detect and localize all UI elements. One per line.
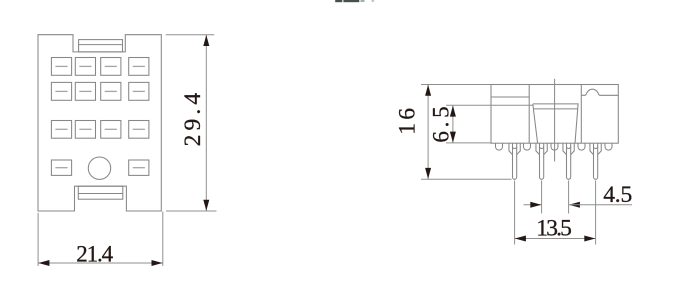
- dim 29.4 dimension line: [205, 35, 207, 211]
- standoff bump 2: [524, 143, 531, 150]
- contact slot r4c4: [129, 160, 149, 175]
- top mounting tab: [79, 40, 123, 52]
- standoff bump 5: [605, 143, 612, 150]
- dim 6.5 arrow up: [450, 106, 456, 117]
- dim 16 arrow down: [425, 168, 431, 179]
- contact slot r1c3: [101, 58, 121, 76]
- dim 4.5 extension line right: [568, 181, 570, 214]
- pin 2: [536, 143, 547, 179]
- standoff bump 1: [496, 143, 503, 150]
- right section divider: [580, 85, 582, 144]
- svg-text:16: 16: [394, 108, 420, 135]
- socket body outline (top view): [38, 35, 161, 211]
- dim 16 extension line bottom: [421, 178, 512, 180]
- dim 21.4 arrow left: [38, 260, 49, 266]
- dim 21.4 extension line left: [37, 213, 39, 266]
- dim 21.4 extension line right: [162, 212, 164, 267]
- dim 6.5 extension line bottom: [446, 142, 491, 144]
- dim 6.5 extension line top: [446, 104, 533, 106]
- contact slot r4c1: [51, 160, 71, 175]
- dim 13.5 extension line right: [595, 181, 597, 245]
- left section divider: [528, 85, 530, 144]
- left section horizontal line: [491, 96, 529, 98]
- dim 29.4 extension line top: [166, 34, 215, 36]
- centerline: [554, 79, 556, 162]
- dim 29.4 arrow down: [203, 200, 209, 211]
- trapezoid inner line: [533, 108, 577, 110]
- dim 6.5 arrow down: [450, 132, 456, 143]
- contact slot r2c1: [51, 82, 71, 100]
- pin 4: [590, 143, 601, 179]
- dim 13.5 dimension line: [515, 238, 596, 240]
- dim 13.5 arrow right: [584, 236, 595, 242]
- dim 29.4 extension line bottom: [166, 210, 217, 212]
- contact slot r2c2: [75, 82, 95, 100]
- contact slot r1c4: [129, 58, 149, 76]
- dim 16 dimension line: [427, 85, 429, 180]
- right section notch with bump: [581, 89, 618, 95]
- svg-text:13.5: 13.5: [536, 215, 572, 241]
- cropped header mark: [335, 0, 374, 2]
- dim 13.5 arrow left: [515, 236, 526, 242]
- contact slot r3c2: [75, 121, 95, 139]
- contact slot r3c3: [101, 121, 121, 139]
- center hole: [88, 157, 110, 179]
- contact slot r1c2: [75, 58, 95, 76]
- svg-text:21.4: 21.4: [76, 241, 113, 266]
- contact slot r2c4: [129, 82, 149, 100]
- dim 29.4 arrow up: [203, 35, 209, 46]
- pin 3: [563, 143, 574, 179]
- dim 6.5 dimension line: [452, 105, 454, 143]
- contact slot r2c3: [101, 82, 121, 100]
- dim 4.5 extension line left: [541, 181, 543, 214]
- dim 16 extension line top: [421, 84, 491, 86]
- pin 1: [509, 143, 520, 179]
- relay cavity trapezoid: [533, 104, 578, 143]
- svg-text:29.4: 29.4: [180, 93, 206, 147]
- dim 4.5 arrow pointing left: [569, 202, 580, 208]
- dim 16 arrow up: [425, 85, 431, 96]
- contact slot r3c1: [51, 121, 71, 139]
- dim 13.5 extension line left: [514, 181, 516, 245]
- bottom mounting tab: [78, 186, 123, 199]
- side-view body outline: [491, 85, 618, 144]
- dim 21.4 dimension line: [38, 262, 163, 264]
- dim 4.5 leader line: [569, 204, 632, 206]
- dim 4.5 arrow pointing right: [530, 202, 541, 208]
- standoff bump 3: [551, 143, 558, 150]
- contact slot r1c1: [51, 58, 71, 76]
- svg-text:4.5: 4.5: [603, 182, 632, 208]
- standoff bump 4: [578, 143, 585, 150]
- dim 21.4 arrow right: [152, 260, 163, 266]
- dim 4.5 tail left: [524, 204, 542, 206]
- contact slot r3c4: [129, 121, 149, 139]
- svg-text:6.5: 6.5: [428, 106, 453, 142]
